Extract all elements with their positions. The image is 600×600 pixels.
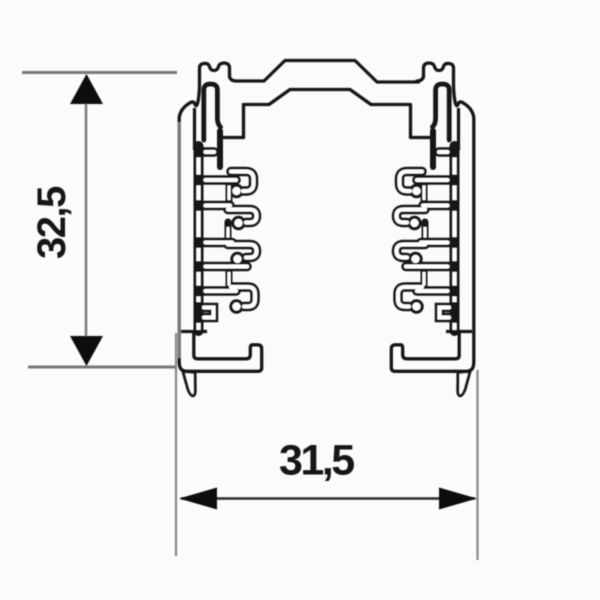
svg-text:32,5: 32,5 [30,186,74,259]
svg-text:31,5: 31,5 [279,437,354,485]
